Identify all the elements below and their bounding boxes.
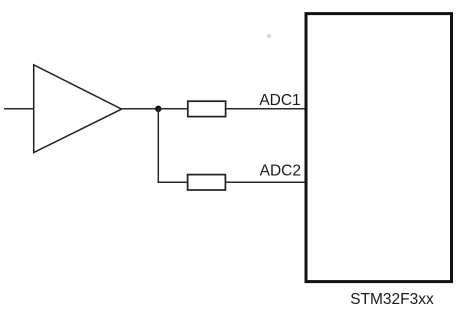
resistor R1 xyxy=(188,101,226,116)
resistor R2 xyxy=(188,175,226,190)
STM32F3xx box xyxy=(306,14,452,282)
op-amp U1 (buffer triangle) xyxy=(34,65,122,153)
svg-text:STM32F3xx: STM32F3xx xyxy=(350,291,434,308)
wire to resistor R2 xyxy=(158,181,188,183)
wire input to op-amp xyxy=(4,108,34,110)
wire op-amp output to node A xyxy=(122,108,159,110)
node A (junction dot) xyxy=(155,106,161,112)
svg-text:ADC1: ADC1 xyxy=(259,92,300,109)
wire resistor R1 to STM32 ADC1 pin xyxy=(226,108,306,110)
wire node A down xyxy=(157,109,159,182)
svg-text:ADC2: ADC2 xyxy=(260,162,301,179)
wire resistor R2 to STM32 ADC2 pin xyxy=(225,181,305,183)
wire node A to resistor R1 xyxy=(158,108,188,110)
faint mark xyxy=(267,34,271,38)
